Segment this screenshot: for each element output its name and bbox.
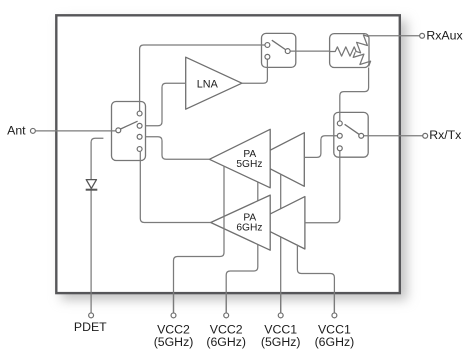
wire SW1 throw2 to LNA input bbox=[146, 83, 186, 126]
wire SW1 throw4 to PA2 output bbox=[140, 152, 210, 223]
wire SW1 throw1 to SW2 upper input bbox=[140, 45, 265, 111]
svg-text:5GHz: 5GHz bbox=[236, 159, 262, 170]
terminal Ant bbox=[7, 124, 35, 138]
wire SW1 throw3 to PA1 output bbox=[146, 137, 210, 160]
svg-text:6GHz: 6GHz bbox=[236, 223, 262, 234]
chip outline U1 bbox=[56, 15, 400, 293]
svg-text:Ant: Ant bbox=[7, 124, 26, 138]
amplifier PA1 output stage (PA 5GHz) bbox=[209, 129, 270, 188]
svg-text:RxAux: RxAux bbox=[426, 29, 463, 43]
terminal VCC2 (5GHz) bbox=[154, 313, 194, 349]
wire coupler tap to PDET diode bbox=[91, 138, 103, 312]
wire VCC2(5GHz) riser (over PA6) bbox=[174, 166, 225, 312]
pin stub VCC1(5GHz) bbox=[280, 293, 282, 312]
attenuator ATT body bbox=[330, 34, 369, 68]
wire Ant to SW1 pole bbox=[36, 130, 116, 132]
pin stub VCC2(6GHz) bbox=[225, 293, 227, 312]
amplifier LNA bbox=[186, 57, 242, 109]
wire VCC1(5GHz) riser (behind PA6 driver) bbox=[280, 175, 282, 313]
wire PA2 driver input to SW3 throw3 bbox=[305, 151, 340, 223]
switch SW1 throw contacts bbox=[137, 111, 142, 151]
svg-text:(5GHz): (5GHz) bbox=[261, 335, 301, 349]
switch SW1 body (antenna SP4T) bbox=[112, 102, 146, 161]
pin stub VCC2(5GHz) bbox=[173, 293, 175, 312]
terminal PDET bbox=[74, 313, 107, 334]
pin stub VCC1(6GHz) bbox=[333, 293, 335, 312]
terminal VCC1 (6GHz) bbox=[315, 313, 355, 349]
wire attenuator to RxAux port bbox=[369, 35, 420, 37]
switch SW2 body (LNA/aux SPDT) bbox=[262, 33, 296, 67]
chip outline shadow bbox=[61, 20, 407, 300]
switch SW3 arm bbox=[345, 124, 362, 136]
wire PA1 driver input to SW3 throw2 bbox=[304, 136, 337, 158]
wire attenuator to SW3 throw1 bbox=[340, 68, 369, 121]
switch SW2 arm bbox=[272, 40, 288, 51]
amplifier PA2 output stage (PA 6GHz) bbox=[211, 195, 271, 250]
svg-text:(6GHz): (6GHz) bbox=[315, 335, 355, 349]
switch SW3 contacts bbox=[337, 121, 363, 151]
switch SW3 body (Rx/Tx SP3T) bbox=[334, 112, 368, 157]
svg-text:Rx/Tx: Rx/Tx bbox=[429, 128, 462, 142]
wire SW3 common to Rx/Tx port bbox=[364, 135, 423, 137]
wire VCC1(6GHz) riser bbox=[297, 245, 334, 313]
PA5 driver stage Q2 (hidden apex) bbox=[252, 133, 304, 187]
PA6 driver stage Q4 (hidden apex) bbox=[253, 197, 305, 249]
attenuator ATT resistor zigzags bbox=[330, 35, 371, 66]
wire SW2 common to attenuator bbox=[291, 50, 330, 52]
terminal RxAux bbox=[420, 29, 464, 43]
svg-text:LNA: LNA bbox=[197, 79, 219, 91]
terminal VCC1 (5GHz) bbox=[261, 313, 301, 349]
diode D1 (power detector) bbox=[86, 180, 98, 190]
switch SW1 pole contact bbox=[116, 128, 121, 133]
terminal VCC2 (6GHz) bbox=[206, 313, 246, 349]
terminal Rx/Tx bbox=[423, 128, 462, 142]
switch SW1 arm bbox=[119, 121, 137, 129]
wire LNA output to SW2 lower input bbox=[242, 60, 268, 84]
wire VCC2(6GHz) riser (behind PA6) bbox=[226, 182, 258, 312]
svg-text:(6GHz): (6GHz) bbox=[206, 335, 246, 349]
svg-text:PDET: PDET bbox=[74, 320, 107, 334]
svg-text:(5GHz): (5GHz) bbox=[154, 335, 194, 349]
switch SW2 contacts bbox=[265, 43, 290, 60]
